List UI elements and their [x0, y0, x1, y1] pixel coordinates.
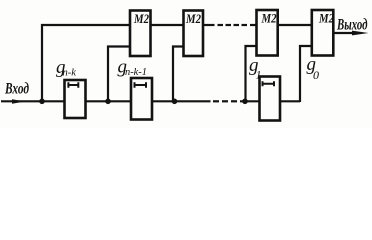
svg-text:М2: М2: [318, 11, 334, 26]
svg-text:М2: М2: [185, 11, 201, 26]
svg-text:0: 0: [313, 68, 319, 82]
svg-text:n-k: n-k: [63, 68, 77, 79]
svg-text:М2: М2: [261, 11, 277, 26]
svg-text:Выход: Выход: [336, 17, 367, 34]
svg-text:Вход: Вход: [4, 81, 29, 98]
svg-text:М2: М2: [133, 11, 149, 26]
svg-text:n-k-1: n-k-1: [125, 67, 147, 78]
svg-text:1: 1: [256, 68, 262, 82]
